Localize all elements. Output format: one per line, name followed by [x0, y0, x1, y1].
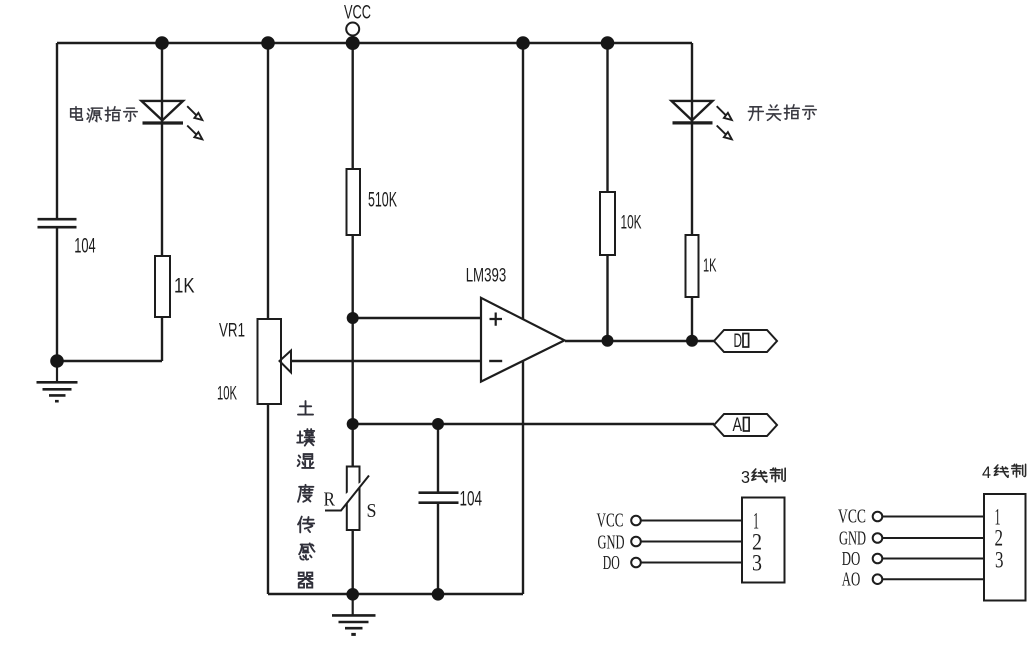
wire AO rail [353, 423, 714, 425]
connector J1 body [742, 498, 785, 583]
svg-text:A: A [733, 415, 743, 436]
svg-text:10K: 10K [217, 383, 237, 405]
svg-text:4: 4 [982, 463, 991, 482]
wire VR1 bottom to rail [267, 403, 269, 594]
J2 pin GND [839, 527, 866, 549]
connector J1 3-wire title 3线制 [741, 467, 750, 487]
junction rail-opamp-supply [516, 36, 530, 50]
label VR1 [219, 320, 245, 342]
resistor R4 10K [600, 192, 615, 255]
resistor R1 1K [155, 256, 170, 317]
wire opamp output to DO [565, 340, 714, 342]
resistor R5 value 1K [703, 255, 717, 276]
resistor R1 value 1K [174, 275, 195, 298]
wire ground link left [57, 360, 162, 362]
capacitor C1 104 [38, 219, 77, 227]
svg-text:VCC: VCC [344, 3, 371, 24]
junction bottom ground node [346, 588, 359, 601]
svg-text:GND: GND [839, 527, 866, 549]
ground middle [332, 594, 376, 634]
sensor element R/S [325, 467, 369, 531]
label sensor R [324, 489, 336, 511]
wire noninverting input [353, 317, 481, 319]
svg-text:DO: DO [842, 548, 861, 570]
wire R1 bottom [161, 317, 163, 361]
LED D2 switch indicator [672, 101, 732, 139]
label U1 LM393 [466, 265, 507, 287]
svg-text:104: 104 [460, 488, 483, 511]
label VR1 value 10K [217, 383, 237, 405]
svg-text:10K: 10K [621, 213, 642, 234]
connector J2 4-wire title 4线制 [982, 463, 991, 482]
potentiometer VR1 [258, 319, 292, 404]
junction rail-VCC [346, 36, 360, 50]
connector J2 body [984, 494, 1026, 601]
J1 pin numbers [752, 509, 762, 576]
J2 pin VCC [838, 505, 866, 527]
J2 pin DO [842, 548, 861, 570]
svg-text:1K: 1K [703, 255, 717, 276]
resistor R2 value 510K [368, 189, 397, 212]
svg-text:510K: 510K [368, 189, 397, 212]
op-amp U1 LM393 [481, 298, 565, 382]
junction rail-R4 [601, 36, 615, 50]
wire LED1 branch [161, 43, 163, 256]
ground left [37, 361, 78, 401]
wire left branch vertical lower [56, 228, 58, 361]
J2 pin AO [842, 568, 861, 590]
svg-text:D: D [734, 331, 743, 352]
J2 pin numbers [995, 505, 1004, 573]
svg-text:GND: GND [598, 531, 625, 553]
svg-text:104: 104 [74, 235, 96, 258]
wire VCC stub [352, 36, 354, 44]
capacitor C2 104 [419, 493, 459, 503]
label VCC [344, 3, 371, 24]
svg-text:1K: 1K [174, 275, 195, 298]
svg-text:AO: AO [842, 568, 861, 590]
junction bottom C2 node [432, 588, 445, 601]
svg-text:VR1: VR1 [219, 320, 245, 342]
label power-indicator 电源指示 [71, 107, 138, 122]
port DO tag [714, 330, 777, 352]
wire top VCC rail [57, 42, 692, 44]
junction noninverting node [347, 312, 359, 324]
J1 pin GND [598, 531, 625, 553]
junction AO node left [347, 418, 359, 430]
wire R4 bottom to DO rail [606, 255, 608, 341]
junction AO-C2 node [432, 418, 444, 430]
LED D1 power indicator [142, 101, 203, 139]
svg-text:3: 3 [752, 551, 762, 576]
label soil moisture sensor 土壤湿度传感器 vertical [297, 401, 314, 588]
wire bottom rail [268, 593, 523, 595]
junction DO-R4 node [602, 335, 614, 347]
wire sensor bottom [352, 530, 354, 594]
wire inverting input from wiper [291, 360, 481, 362]
wire C2 branch upper [437, 424, 439, 492]
wire LED2 corner [691, 43, 693, 235]
wire R4 branch upper [606, 43, 608, 192]
junction rail-D1 [155, 36, 169, 50]
wire power branch through opamp [522, 43, 524, 594]
svg-text:LM393: LM393 [466, 265, 507, 287]
resistor R2 510K [347, 169, 361, 235]
junction DO-R5 node [686, 335, 698, 347]
svg-text:VCC: VCC [838, 505, 866, 527]
label AO [733, 415, 750, 436]
wire C2 branch lower [437, 504, 439, 595]
wire VR1 branch upper [267, 43, 269, 319]
label sensor S [367, 500, 377, 522]
resistor R4 value 10K [621, 213, 642, 234]
wire R5 bottom to DO rail [691, 297, 693, 341]
junction left ground node [50, 354, 64, 368]
wire left branch vertical upper [56, 43, 58, 218]
resistor R5 1K [686, 235, 699, 297]
capacitor C1 value 104 [74, 235, 96, 258]
svg-text:VCC: VCC [597, 510, 624, 532]
port AO tag [714, 414, 777, 436]
J1 pin DO [603, 552, 620, 574]
wire center branch upper [352, 43, 354, 169]
label switch-indicator 开关指示 [748, 105, 816, 121]
svg-text:3: 3 [995, 548, 1004, 573]
svg-text:DO: DO [603, 552, 620, 574]
svg-text:R: R [324, 489, 336, 511]
svg-text:S: S [367, 500, 377, 522]
capacitor C2 value 104 [460, 488, 483, 511]
svg-text:3: 3 [741, 467, 750, 487]
label DO [734, 331, 749, 352]
wire center R2 to sensor [352, 235, 354, 467]
power VCC terminal [346, 23, 359, 36]
junction rail-VR1 [261, 36, 275, 50]
J1 pin VCC [597, 510, 624, 532]
